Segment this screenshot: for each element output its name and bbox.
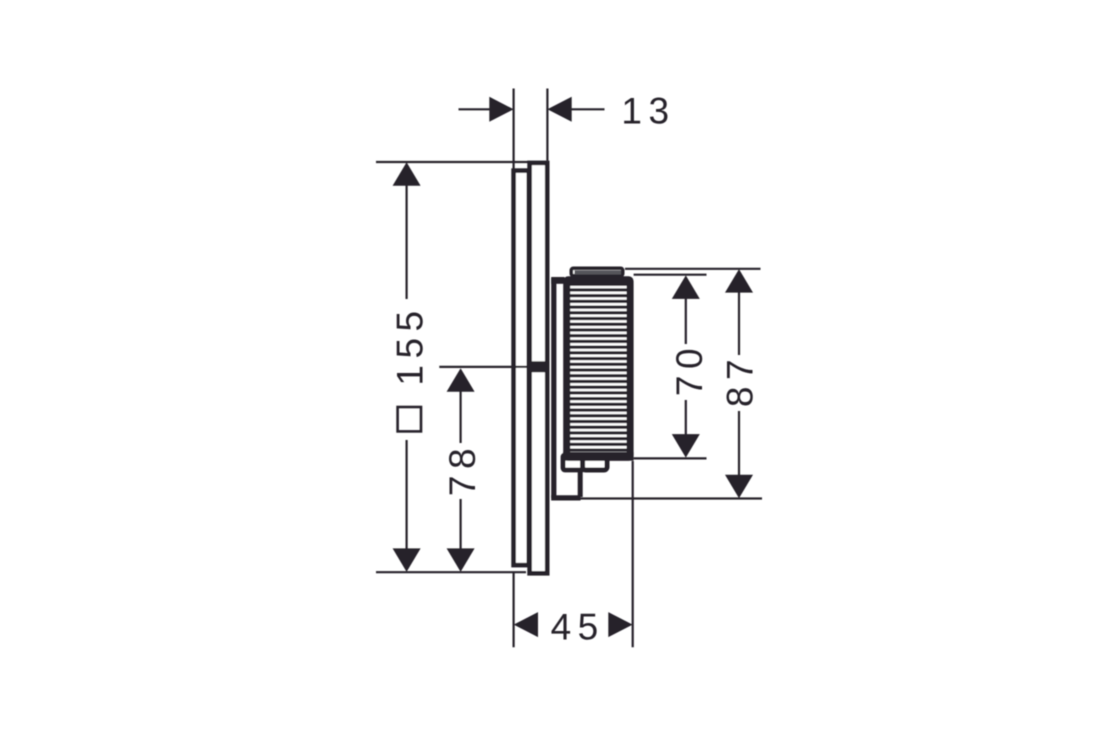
dimension 78 line + arrows bbox=[460, 390, 462, 443]
dimension 155 line + arrows bbox=[406, 184, 408, 299]
cap inner band bbox=[575, 270, 622, 274]
dimension 13 right arrow + tail bbox=[572, 108, 605, 110]
svg-text:155: 155 bbox=[389, 304, 430, 385]
dimension 13 extension line right bbox=[546, 89, 548, 161]
dimension 78 top extension line bbox=[439, 366, 531, 368]
valve sleeve left wall bbox=[551, 278, 556, 498]
dimension 13 left arrow + tail bbox=[459, 108, 493, 110]
dimension 45 arrows bbox=[514, 612, 538, 637]
handle top cap bbox=[571, 268, 622, 275]
lower step A under handle bbox=[563, 455, 584, 470]
dimension 70 top extension line bbox=[634, 274, 707, 276]
back plate (wall escutcheon, side view) bbox=[514, 171, 529, 565]
dimension 87 line + arrows bbox=[738, 291, 740, 355]
square symbol of 155 bbox=[398, 407, 421, 431]
handle bottom band bbox=[563, 452, 633, 461]
knurled handle body bbox=[567, 280, 630, 458]
dimension 45 right extension line bbox=[632, 461, 634, 647]
sleeve bottom bracket bar bbox=[551, 495, 580, 500]
front plate (escutcheon front, side view) bbox=[530, 163, 548, 573]
valve sleeve top band bbox=[551, 277, 564, 284]
dimension 87 top extension line bbox=[625, 268, 761, 270]
svg-text:87: 87 bbox=[719, 353, 760, 407]
dimension 70 line + arrows bbox=[685, 297, 687, 344]
svg-text:70: 70 bbox=[669, 342, 710, 396]
dimension 70 bottom extension line bbox=[634, 457, 707, 459]
bracket right column bbox=[578, 468, 583, 497]
svg-text:78: 78 bbox=[442, 442, 483, 496]
dimension 87 bottom extension line bbox=[581, 497, 763, 499]
dimension 155 top extension line bbox=[376, 161, 549, 163]
svg-text:45: 45 bbox=[551, 607, 605, 648]
dimension 155/78 bottom extension line bbox=[376, 571, 526, 573]
knurling ribs bbox=[570, 283, 628, 452]
mid fixing notch on plate bbox=[531, 361, 546, 372]
dimension 45 left extension line bbox=[512, 572, 514, 647]
svg-text:13: 13 bbox=[621, 91, 675, 132]
dimension 13 extension line left bbox=[512, 89, 514, 169]
lower step B under handle bbox=[583, 457, 607, 470]
